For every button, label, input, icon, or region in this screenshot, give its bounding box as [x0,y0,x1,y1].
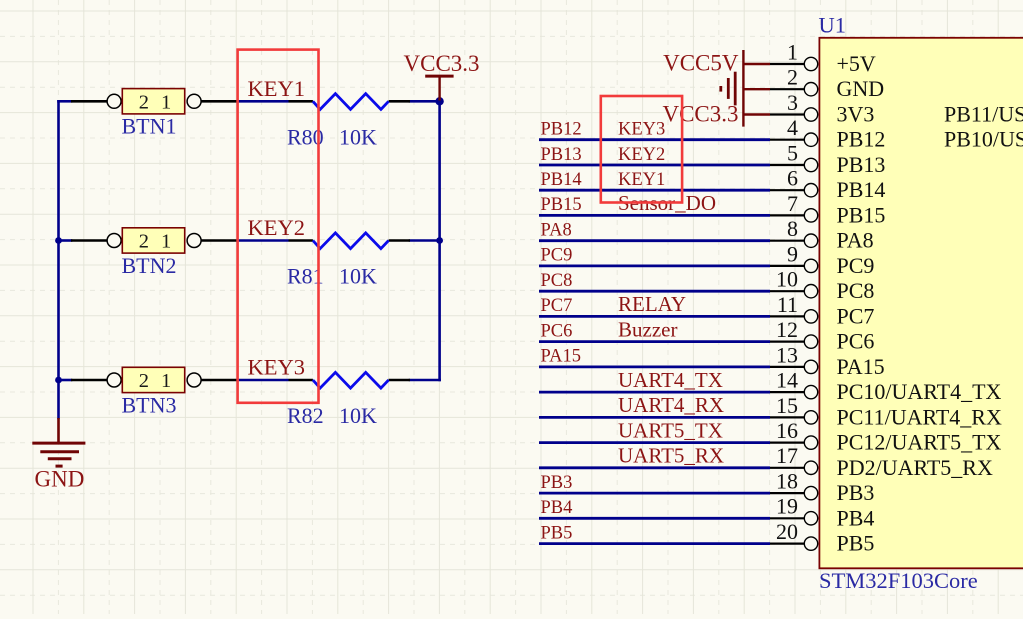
wire right vertical bus VCC3.3 [438,101,441,380]
svg-text:VCC5V: VCC5V [663,51,739,76]
svg-text:1: 1 [787,39,798,64]
svg-text:PB12: PB12 [837,127,886,152]
pin 3 3V3 [770,90,874,127]
wire net pin 17 [539,466,770,469]
svg-text:PB10/US: PB10/US [944,127,1023,152]
wire net pin 10 [539,290,770,293]
wire net pin 6 [539,189,770,192]
svg-text:14: 14 [776,368,798,393]
svg-text:PD2/UART5_RX: PD2/UART5_RX [837,455,993,480]
svg-text:RELAY: RELAY [618,292,686,316]
junction right bus KEY1 [435,97,443,105]
svg-text:KEY2: KEY2 [618,145,665,165]
svg-text:PC8: PC8 [837,278,875,303]
svg-text:BTN3: BTN3 [122,392,177,417]
pin 15 PC11/UART4_RX [770,393,1002,430]
svg-text:UART5_RX: UART5_RX [618,444,724,468]
svg-text:U1: U1 [819,13,847,38]
highlight rect keys right [601,96,682,203]
svg-text:PB15: PB15 [837,202,886,227]
svg-text:Buzzer: Buzzer [618,317,677,341]
resistor R81 10K [289,233,411,249]
svg-text:VCC3.3: VCC3.3 [662,101,738,126]
pin 17 PD2/UART5_RX [770,443,993,480]
svg-text:7: 7 [787,191,798,216]
svg-text:15: 15 [776,393,798,418]
svg-text:6: 6 [787,166,798,191]
pin 16 PC12/UART5_TX [770,418,1002,455]
wire left vertical bus [57,101,60,418]
wire net pin 5 [539,164,770,167]
svg-text:PA15: PA15 [837,354,885,379]
pin 2 GND [770,65,884,102]
svg-text:UART4_RX: UART4_RX [618,393,724,417]
wire KEY3 row segments [59,379,72,382]
pin 6 PB14 [770,166,885,203]
svg-text:PC9: PC9 [837,253,875,278]
svg-text:PC12/UART5_TX: PC12/UART5_TX [837,430,1002,455]
svg-text:KEY3: KEY3 [248,355,306,380]
svg-text:KEY3: KEY3 [618,120,665,140]
pin 12 PC6 [770,317,874,354]
svg-text:20: 20 [776,519,798,544]
svg-text:PA8: PA8 [837,228,874,253]
svg-text:19: 19 [776,494,798,519]
wire KEY1 row segments [59,100,72,103]
svg-text:+5V: +5V [837,51,876,76]
wire KEY2 row segments [59,239,72,242]
wire net pin 11 [539,315,770,318]
svg-text:PB15: PB15 [541,195,582,215]
svg-text:2: 2 [787,65,798,90]
pin 20 PB5 [770,519,874,556]
pin 8 PA8 [770,216,874,253]
svg-text:8: 8 [787,216,798,241]
resistor R82 10K [289,372,411,388]
pin 18 PB3 [770,469,874,506]
svg-text:4: 4 [787,115,798,140]
svg-text:KEY1: KEY1 [618,170,665,190]
svg-text:PC10/UART4_TX: PC10/UART4_TX [837,379,1002,404]
pin 7 PB15 [770,191,885,228]
svg-text:PC8: PC8 [541,271,573,291]
svg-text:PB14: PB14 [837,177,886,202]
svg-text:PA8: PA8 [541,221,572,241]
svg-text:2 1: 2 1 [139,231,171,253]
svg-text:10: 10 [776,267,798,292]
pin 11 PC7 [770,292,874,329]
pin 14 PC10/UART4_TX [770,368,1002,405]
svg-text:PB12: PB12 [541,120,582,140]
wire net pin 4 [539,138,770,141]
svg-text:PC11/UART4_RX: PC11/UART4_RX [837,404,1002,429]
svg-text:11: 11 [777,292,798,317]
pushbutton BTN1 [71,89,238,114]
svg-text:PC7: PC7 [541,296,573,316]
wire net pin 16 [539,441,770,444]
svg-text:PC6: PC6 [837,329,875,354]
svg-text:GND: GND [837,76,885,101]
svg-text:PB3: PB3 [541,473,573,493]
svg-text:12: 12 [776,317,798,342]
svg-text:PC7: PC7 [837,303,875,328]
svg-text:5: 5 [787,140,798,165]
wire net pin 15 [539,416,770,419]
svg-text:17: 17 [776,443,798,468]
op IC U1 body [819,38,1023,569]
svg-text:PB4: PB4 [541,498,573,518]
pushbutton BTN2 [71,228,238,253]
svg-text:UART5_TX: UART5_TX [618,418,723,442]
svg-text:PB5: PB5 [837,531,875,556]
pin 9 PC9 [770,241,874,278]
wire net pin 19 [539,517,770,520]
pin 4 PB12 [770,115,885,152]
power port VCC3.3 left [425,76,453,100]
svg-text:3: 3 [787,90,798,115]
svg-text:PB3: PB3 [837,480,875,505]
power ground bars sideways [721,72,735,106]
svg-text:PB4: PB4 [837,505,875,530]
svg-text:GND: GND [35,466,85,491]
wire net pin 14 [539,391,770,394]
svg-text:BTN2: BTN2 [122,253,177,278]
wire net pin 12 [539,340,770,343]
wire power stub pin 1 [743,63,770,65]
pin 10 PC8 [770,267,874,304]
power port GND symbol [32,418,85,466]
svg-text:BTN1: BTN1 [122,114,177,139]
svg-text:PB14: PB14 [541,170,582,190]
svg-text:PA15: PA15 [541,347,581,367]
junction left bus BTN3 [55,377,62,384]
pin 1 +5V [770,39,876,76]
pin 13 PA15 [770,342,885,379]
svg-text:13: 13 [776,342,798,367]
svg-text:PB13: PB13 [837,152,886,177]
wire net pin 9 [539,264,770,267]
wire power stub pin 3 [743,113,770,115]
wire net pin 8 [539,239,770,242]
svg-text:3V3: 3V3 [837,102,875,127]
wire power bar vertical [742,50,744,127]
svg-text:PB11/US: PB11/US [944,102,1023,127]
junction left bus BTN2 [55,237,62,244]
wire net pin 7 [539,214,770,217]
wire power stub pin 2 [743,88,770,90]
svg-text:2 1: 2 1 [139,370,171,392]
svg-text:STM32F103Core: STM32F103Core [819,568,978,593]
svg-text:UART4_TX: UART4_TX [618,368,723,392]
svg-text:2 1: 2 1 [139,91,171,113]
pushbutton BTN3 [71,367,238,392]
wire net pin 20 [539,542,770,545]
pin 19 PB4 [770,494,874,531]
svg-text:PB13: PB13 [541,145,582,165]
svg-text:PB5: PB5 [541,523,573,543]
svg-text:KEY1: KEY1 [248,76,306,101]
wire net pin 13 [539,365,770,368]
svg-text:PC9: PC9 [541,246,573,266]
svg-text:KEY2: KEY2 [248,215,306,240]
svg-text:9: 9 [787,241,798,266]
resistor R80 10K [289,94,411,110]
junction right bus KEY2 [436,237,443,244]
pin 5 PB13 [770,140,885,177]
svg-text:PC6: PC6 [541,321,573,341]
svg-text:18: 18 [776,469,798,494]
svg-text:VCC3.3: VCC3.3 [404,51,480,76]
highlight rect keys left [238,50,319,403]
svg-text:16: 16 [776,418,798,443]
wire net pin 18 [539,492,770,495]
